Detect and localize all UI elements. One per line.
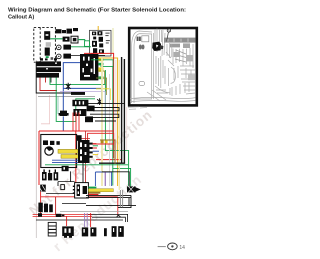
connector P4 [56,29,62,33]
spade connector T2a [63,54,71,59]
wire red box outline [88,133,114,144]
wire green switch to harness [78,39,85,41]
wire green loop B [56,78,95,122]
starter solenoid highlight blob (callout location) [152,42,161,51]
main harness connector CN2 row 1 [36,61,61,66]
splice S2 [38,213,42,217]
wire yellow harness run [98,26,117,186]
wire green switch feed [50,38,62,40]
plug pin [67,29,73,34]
wire green up stub [104,70,106,84]
box corner terminal [77,135,82,141]
yellow band 3 and stubs [88,187,96,189]
wire green fan upper [91,60,113,67]
wire red fuse drop [40,192,42,215]
bus black nested bottom [36,214,128,222]
wire red mid drop [75,131,77,196]
hourmeter M1 [45,48,50,59]
wire black T2 bundle [71,54,105,56]
wire green stub to band [112,168,114,185]
splice S3 [56,214,65,217]
wire red from CN2 [40,78,57,91]
wire gray thin bottom [60,210,128,212]
wire red drop to solenoid coil [67,213,91,227]
wire red module right [93,144,97,148]
bus black nested top [86,104,125,121]
stator components [43,140,60,145]
wire red short drop [76,131,90,197]
mounting screw with pointer [167,29,170,32]
yellow band 2 [61,155,81,159]
footer: page number 14 [158,243,186,251]
ignition switch S1 [44,31,51,47]
watermark "Not for Reproduction" diagonal [26,107,155,255]
wire red CN5 drop [55,197,57,215]
splice junction X1 [66,83,71,90]
dashed enclosure (equipment panel) [34,27,56,62]
wire pale gray vertical [109,74,111,186]
wire red low horizontal [41,197,118,216]
regulator connector CN3 [80,54,98,80]
terminal small a [104,228,107,236]
wire green vertical C [98,64,130,190]
wire black trunk pair [122,57,125,163]
wire green in box [45,164,95,166]
dashed inner divider [39,27,41,62]
wire olive bend [100,140,115,164]
wire red bottom pair [33,215,92,217]
wire red main right drop [84,53,122,159]
yellow band 1 [58,149,78,153]
CN2 top pins [40,58,57,60]
wire purple drops [85,213,88,227]
engine schematic box [41,135,77,168]
wire black trunk turn [99,162,125,164]
fuse F1 [39,185,46,192]
connector P6 [73,28,78,31]
inline plug [63,37,70,42]
wire blue turn to splice [96,88,102,99]
connector CN5 [38,203,52,213]
wire green long run A [50,77,129,187]
splice with arrow to solenoid [127,186,141,193]
wire red CN4 drops [73,113,79,132]
harness connector bank CN1 enclosure [90,30,112,56]
connector CN4 [72,100,94,122]
wire black bus right low [86,195,136,208]
wire green low horizontal [95,164,128,166]
CN3 wire stubs [98,58,103,62]
shadow marks under box [128,107,147,110]
engine housing left panel [132,31,152,103]
connector P5 [62,30,66,33]
wire olive fan [96,71,107,95]
svg-text:Callout A): Callout A) [8,15,34,21]
wire gray verticals low [120,190,122,207]
connector bar [71,92,85,95]
wire purple vertical [104,172,106,186]
wire blue low loop [95,172,111,186]
deck base curves [130,97,196,98]
ground terminal G1 [82,227,97,236]
control module U2 [78,140,90,163]
panel label plate [142,36,149,42]
terminal ring T2 [57,54,62,59]
panel slot handle [139,81,145,85]
wire blue pair in box [52,160,78,162]
wire pale yellow top right [112,28,114,53]
wire purple faint run [60,92,105,118]
wire black bus left low [46,182,86,204]
diode module D1 [59,111,69,116]
wire pale pink vertical [101,58,103,186]
check tick mark [116,215,120,217]
panel knob pair [139,45,142,50]
starter motor connector CN6 [75,183,89,198]
battery B1 [48,222,56,236]
wire red main horizontal [39,130,114,132]
wire red left drop [38,131,40,185]
wire black left riser [36,63,72,93]
splice junction X2 [97,98,102,105]
indicator marks beside module [101,141,104,144]
module pins right [90,143,93,158]
CN1 pin stack [91,31,104,55]
green receptacle [85,41,90,47]
svg-text:14: 14 [179,245,185,251]
key switch module K1 [71,36,78,43]
coil bank components [42,166,69,181]
wire pale yellow vertical [115,60,117,160]
engine block texture right side [155,29,162,52]
wire black corner low [102,172,129,186]
wire blue drop to diode [63,63,96,131]
main harness connector CN2 row 2 [36,67,61,72]
label 30B [105,33,109,44]
spade connector T1a [63,45,71,50]
terminal small b [112,226,124,237]
wire green T1 to bank [71,46,91,48]
main harness connector CN2 row 3 [36,73,59,78]
label 24 [51,57,54,60]
carb solenoid L1 [62,226,74,237]
flywheel magneto circle [45,147,53,155]
faint page fold line left [35,60,37,238]
terminal ring T1 [57,45,62,50]
wire black box drop [58,171,71,189]
illustration box: starter solenoid location callout A [128,28,197,109]
svg-text:Wiring Diagram and Schematic (: Wiring Diagram and Schematic (For Starte… [8,7,186,13]
